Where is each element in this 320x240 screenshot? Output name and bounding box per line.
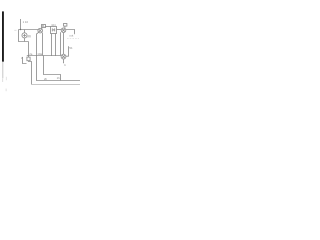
svg-text:Iin: Iin: [28, 34, 32, 38]
svg-text:5b: 5b: [69, 46, 73, 50]
svg-text:1h: 1h: [57, 76, 61, 80]
svg-text:10a: 10a: [37, 52, 42, 56]
svg-text:104: 104: [51, 23, 56, 27]
svg-text:2b: 2b: [44, 77, 48, 81]
svg-text:1 10: 1 10: [23, 20, 29, 24]
svg-text:out: out: [69, 34, 73, 38]
